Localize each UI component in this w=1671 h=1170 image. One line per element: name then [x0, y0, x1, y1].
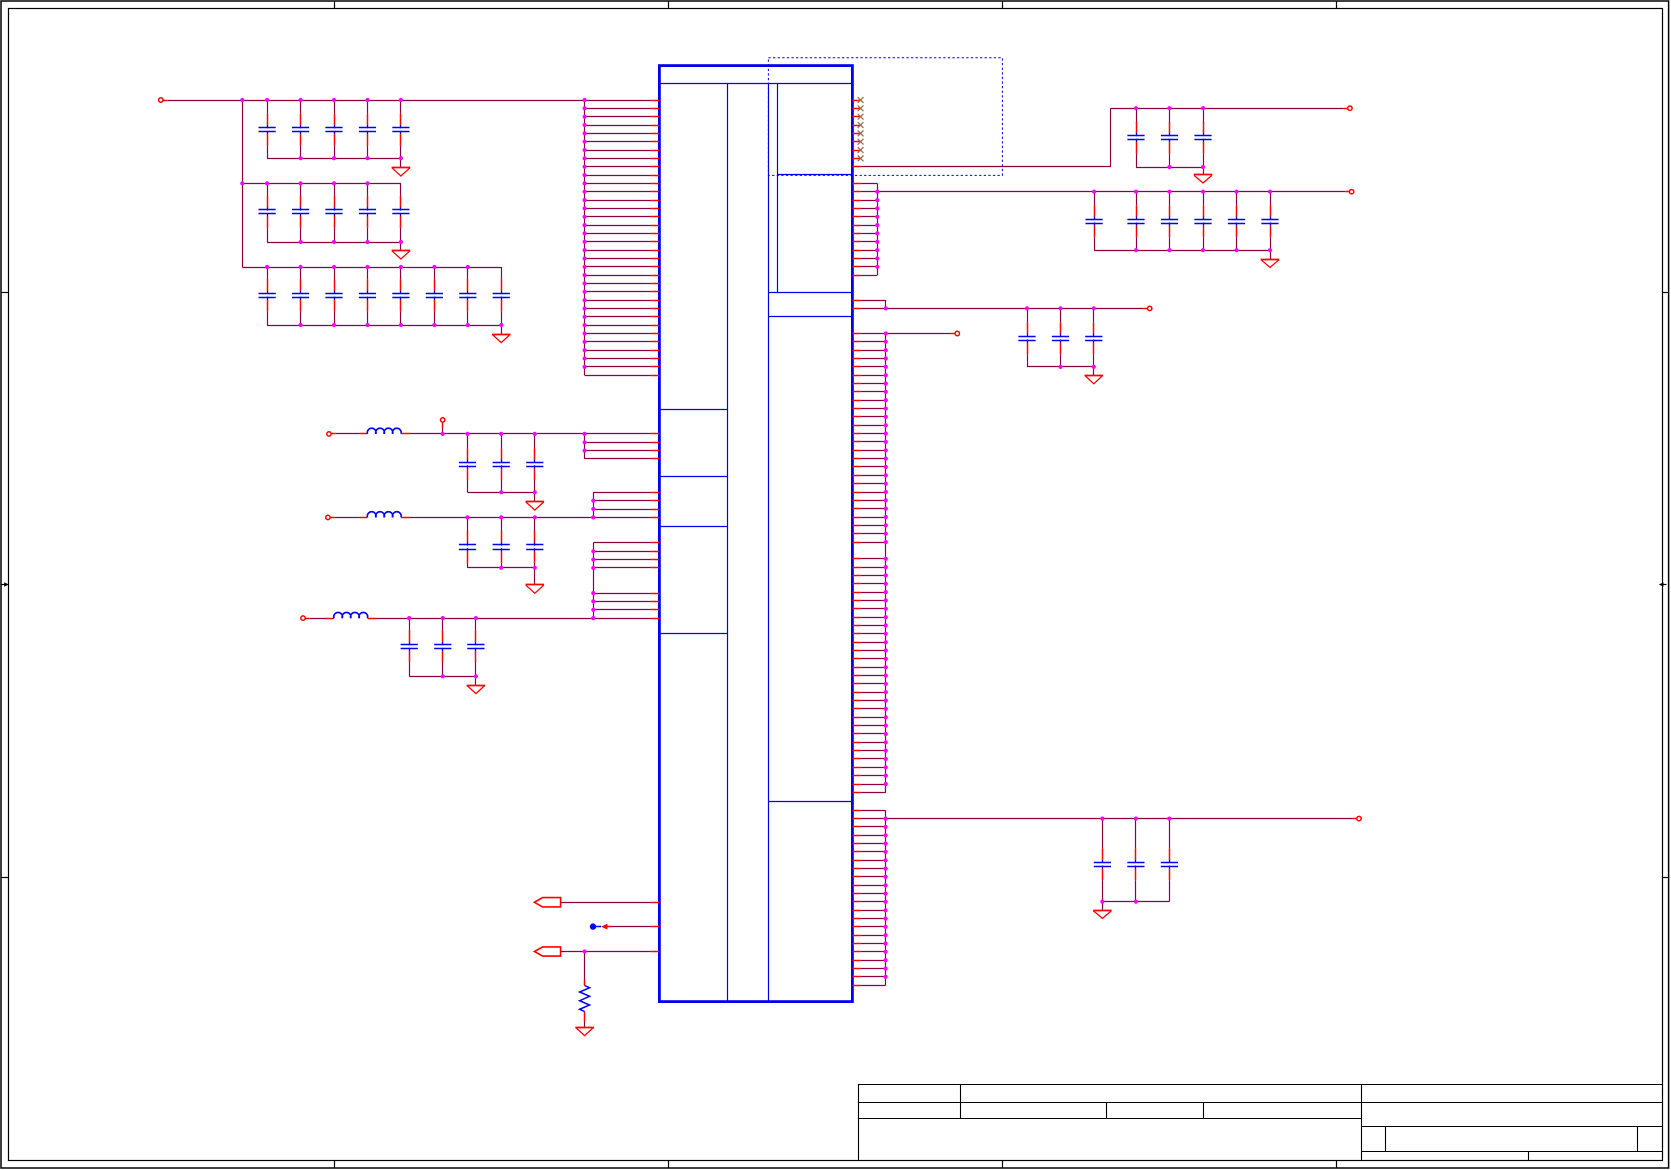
capacitor C3 [334, 100, 336, 114]
junction dot group R3 [884, 306, 888, 310]
inductor L3 [334, 612, 368, 618]
title block [858, 1084, 1662, 1086]
wire group R3 pins [885, 300, 887, 308]
wire group A pins [584, 434, 586, 459]
off-page flag 1 [534, 898, 560, 907]
junction dots row2 bottom [299, 240, 303, 244]
capacitor C27 [475, 618, 477, 631]
port P8 [1148, 306, 1152, 310]
junction dots branch2 [465, 515, 469, 519]
junction dots group C [591, 549, 595, 553]
junction dots branch2 bottom [499, 566, 503, 570]
port P5 [301, 616, 305, 620]
wire group C pins [593, 543, 595, 618]
capacitor C28 [1136, 108, 1138, 121]
off-page flag 2 [534, 947, 560, 956]
capacitor C1 [267, 100, 269, 114]
junction dots rails rows [240, 98, 244, 102]
capacitor C40 [1102, 819, 1104, 849]
port P4 [326, 515, 330, 519]
capacitor C38 [1060, 308, 1062, 322]
IC U1 internal divisions [659, 83, 852, 85]
wire branch3 right [368, 618, 377, 620]
junction dots row1 bottom [299, 156, 303, 160]
wire resistor top [584, 952, 586, 980]
wire group B pins [593, 492, 595, 517]
frame centering arrow left [1, 584, 5, 586]
dashed block outline [768, 58, 1002, 176]
wire branch1 left [332, 433, 336, 435]
capacitor C10 [400, 183, 402, 196]
port P9 [955, 331, 959, 335]
ground bank3 [1093, 367, 1095, 375]
wire bank4 rail [886, 818, 1353, 820]
capacitor C9 [367, 183, 369, 196]
junction dots branch1 bottom [499, 490, 503, 494]
ground row3 [501, 325, 503, 334]
wire group R2 pins [877, 183, 879, 275]
junction dots bank1 bottom [1167, 165, 1171, 169]
junction dots bank2 bottom [1134, 248, 1138, 252]
junction dots bank2 rail [1092, 190, 1096, 194]
capacitor C7 [300, 183, 302, 196]
capacitor C20 [501, 434, 503, 448]
wire bank3 rail [886, 308, 1144, 310]
no-connect pins group R1 [852, 100, 860, 102]
capacitor C15 [400, 267, 402, 279]
junction dots group R4 [884, 331, 888, 335]
wire VCC1 rail row1 [163, 100, 167, 102]
wire row3 bottom rail [267, 325, 501, 327]
wire rail row3 [242, 267, 501, 269]
wire bank3 bottom rail [1027, 366, 1094, 368]
wire group R4 pins [885, 334, 887, 793]
junction dots bank3 rail [1025, 306, 1029, 310]
wire R4 to port [886, 333, 951, 335]
capacitor C8 [334, 183, 336, 196]
capacitor C42 [1169, 819, 1171, 849]
capacitor C33 [1169, 192, 1171, 206]
capacitor C5 [400, 100, 402, 114]
wire branch2 left [331, 517, 335, 519]
capacitor C37 [1027, 308, 1029, 322]
port P7 [1349, 190, 1353, 194]
capacitor C19 [467, 434, 469, 448]
capacitor C6 [267, 183, 269, 196]
wire port P3 drop [442, 423, 444, 428]
wire bank4 bottom rail [1102, 901, 1169, 903]
capacitor C41 [1135, 819, 1137, 849]
wire bank1 feed [852, 166, 860, 168]
junction dots branch3 bottom [441, 674, 445, 678]
junction dots bank3 bottom [1058, 365, 1062, 369]
ground bank2 [1270, 250, 1272, 259]
capacitor C34 [1203, 192, 1205, 206]
junction dots left power bus [583, 98, 587, 102]
wire flag2 to IC [561, 951, 651, 953]
ground branch2 [534, 568, 536, 585]
capacitor C17 [467, 267, 469, 279]
ground branch3 [475, 676, 477, 685]
junction dots group A [583, 432, 587, 436]
wire bank1 bottom rail [1136, 167, 1203, 169]
port P3 [441, 418, 445, 422]
capacitor C14 [367, 267, 369, 279]
junction dots bank4 bottom [1100, 900, 1104, 904]
wire flag1 to IC [561, 902, 651, 904]
wire bank1 rail [1111, 108, 1344, 110]
wire bank2 rail [877, 191, 1345, 193]
IC U1 body outline [659, 66, 852, 1002]
ground bank4 [1102, 902, 1104, 911]
no-connect X marks [858, 97, 864, 103]
capacitor C12 [300, 267, 302, 279]
junction dot flag2 [583, 949, 587, 953]
wire resistor bottom [584, 1012, 586, 1023]
junction dots group R5 [884, 817, 888, 821]
ground row1 [400, 158, 402, 167]
capacitor C26 [442, 618, 444, 631]
wire bank2 bottom rail [1094, 250, 1270, 252]
junction dots branch1 [441, 432, 445, 436]
wire branch2 right [401, 517, 410, 519]
junction dots group R2 [875, 190, 879, 194]
wire bluedot to IC [612, 926, 652, 928]
capacitor C29 [1169, 108, 1171, 121]
ground branch1 [534, 492, 536, 501]
port P10 [1357, 816, 1361, 820]
wire branch3 left [306, 618, 310, 620]
capacitor C22 [467, 517, 469, 531]
wire branch1 right [401, 433, 410, 435]
net stub marker (blue dot) [590, 923, 596, 929]
capacitor C30 [1203, 108, 1205, 121]
port P2 [327, 432, 331, 436]
port P6 [1348, 106, 1352, 110]
wire branch1 bottom rail [468, 492, 535, 494]
capacitor C39 [1093, 308, 1095, 322]
junction dots row3 bottom [299, 323, 303, 327]
junction dots branch3 [407, 616, 411, 620]
frame zone ticks [334, 1, 336, 8]
wire row2 bottom rail [267, 242, 401, 244]
ground bank1 [1203, 167, 1205, 175]
capacitor C2 [300, 100, 302, 114]
wire rail row2 [242, 183, 401, 185]
ground resistor [584, 1026, 586, 1029]
junction dots bank4 rail [1100, 817, 1104, 821]
wire bus left power pins [584, 100, 586, 375]
capacitor C24 [534, 517, 536, 531]
capacitor C13 [334, 267, 336, 279]
wire group R5 pins [885, 810, 887, 985]
capacitor C25 [409, 618, 411, 631]
capacitor C18 [501, 267, 503, 279]
capacitor C21 [534, 434, 536, 448]
capacitor C32 [1136, 192, 1138, 206]
capacitor C35 [1236, 192, 1238, 206]
wire branch2 bottom rail [468, 567, 535, 569]
inductor L2 [367, 512, 401, 518]
capacitor C23 [501, 517, 503, 531]
port VCC1 [159, 98, 163, 102]
capacitor C16 [434, 267, 436, 279]
capacitor C4 [367, 100, 369, 114]
inductor L1 [367, 428, 401, 434]
wire feeder vertical [242, 100, 244, 267]
wire row1 bottom rail [267, 158, 401, 160]
junction dots group B [591, 499, 595, 503]
capacitor C36 [1270, 192, 1272, 206]
wire branch3 bottom rail [409, 676, 476, 678]
frame centering arrow right [1663, 584, 1667, 586]
junction dots bank1 rail [1134, 106, 1138, 110]
capacitor C31 [1094, 192, 1096, 206]
capacitor C11 [267, 267, 269, 279]
resistor R1 [580, 986, 590, 1012]
ground row2 [400, 242, 402, 250]
